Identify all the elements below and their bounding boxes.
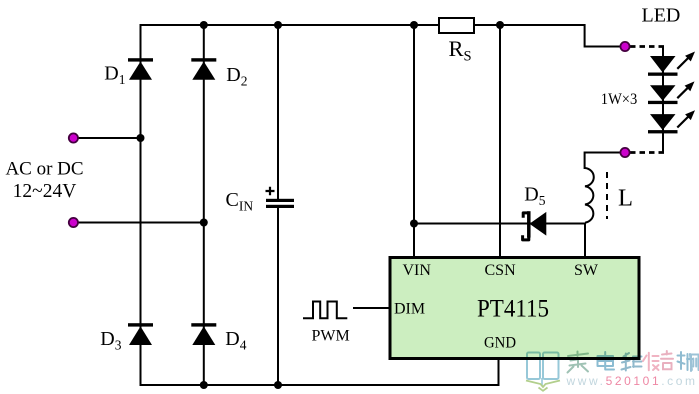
PWM source waveform xyxy=(303,302,347,319)
svg-text:D3: D3 xyxy=(100,328,121,353)
wire: bottom bus xyxy=(140,384,499,386)
wire: GND lead xyxy=(498,360,500,386)
wire: LED cathode lead to inductor xyxy=(585,153,621,170)
wire: AC upper lead xyxy=(73,137,140,139)
inductor L coil xyxy=(585,168,594,223)
svg-text:VIN: VIN xyxy=(403,262,432,279)
wire: DIM lead xyxy=(353,307,390,309)
node: AC upper junction xyxy=(137,134,145,142)
svg-text:D1: D1 xyxy=(104,63,125,88)
svg-text:RS: RS xyxy=(449,36,472,65)
node: AC lower junction xyxy=(200,219,208,227)
diode D2 xyxy=(191,58,216,79)
svg-text:CSN: CSN xyxy=(485,262,517,279)
wire: LED string vertical xyxy=(662,47,664,153)
diode D5 (schottky) triangle xyxy=(530,213,546,235)
wire: CSN vertical xyxy=(499,25,501,258)
LED2 xyxy=(648,81,695,104)
wire: C_IN vertical xyxy=(277,25,279,199)
diode D5 cathode bar with hooks xyxy=(527,211,531,237)
wire: dashed LED cathode link xyxy=(630,151,664,154)
svg-text:PWM: PWM xyxy=(312,328,350,345)
node: bottom bus / C_IN xyxy=(274,381,282,389)
wire: VIN vertical xyxy=(413,25,415,258)
diode D3 xyxy=(128,323,153,345)
capacitor C_IN plus sign xyxy=(266,187,275,195)
diode D1 xyxy=(128,58,153,79)
svg-text:L: L xyxy=(618,185,633,212)
svg-text:GND: GND xyxy=(484,335,516,352)
watermark logo book xyxy=(526,353,560,391)
node: top bus / CSN xyxy=(496,21,504,29)
resistor RS body xyxy=(439,18,474,33)
node: top bus / VIN xyxy=(410,21,418,29)
svg-text:D4: D4 xyxy=(225,328,246,353)
wire: bridge right vertical D2/D4 xyxy=(203,25,205,385)
diode D4 xyxy=(191,323,216,345)
svg-text:1W×3: 1W×3 xyxy=(601,91,638,108)
watermark chinese text xyxy=(568,351,699,373)
svg-text:PT4115: PT4115 xyxy=(477,296,549,323)
node: bottom bus / D4 xyxy=(200,381,208,389)
wire: SW lead xyxy=(584,223,586,258)
svg-text:AC or DC: AC or DC xyxy=(5,159,83,180)
wire: D5 horizontal xyxy=(414,223,585,225)
svg-text:SW: SW xyxy=(574,262,599,279)
svg-text:12~24V: 12~24V xyxy=(13,181,77,202)
node: top bus / D2 xyxy=(200,21,208,29)
svg-text:D5: D5 xyxy=(524,184,545,209)
svg-text:LED: LED xyxy=(642,5,681,27)
wire: top bus xyxy=(140,24,585,26)
wire: bridge left vertical D1/D3 xyxy=(140,25,142,385)
capacitor C_IN plates xyxy=(266,199,294,202)
terminal: AC input upper xyxy=(69,133,78,142)
wire: top-right drop to LED anode xyxy=(585,24,621,47)
terminal: AC input lower xyxy=(69,218,78,227)
wire: dashed LED anode link xyxy=(630,45,664,48)
terminal: LED anode xyxy=(620,42,629,51)
svg-text:D2: D2 xyxy=(226,64,247,89)
LED1 xyxy=(648,52,695,76)
terminal: LED cathode xyxy=(620,148,629,157)
svg-text:DIM: DIM xyxy=(394,301,425,318)
node: top bus / C_IN xyxy=(274,21,282,29)
LED3 xyxy=(648,110,695,133)
inductor core dashed line xyxy=(606,172,608,219)
wire: AC lower lead xyxy=(73,222,203,224)
op IC PT4115 body xyxy=(390,258,639,359)
node: D5 anode / VIN xyxy=(410,220,418,228)
svg-text:CIN: CIN xyxy=(226,189,254,214)
svg-text:www.520101.com: www.520101.com xyxy=(566,374,698,388)
